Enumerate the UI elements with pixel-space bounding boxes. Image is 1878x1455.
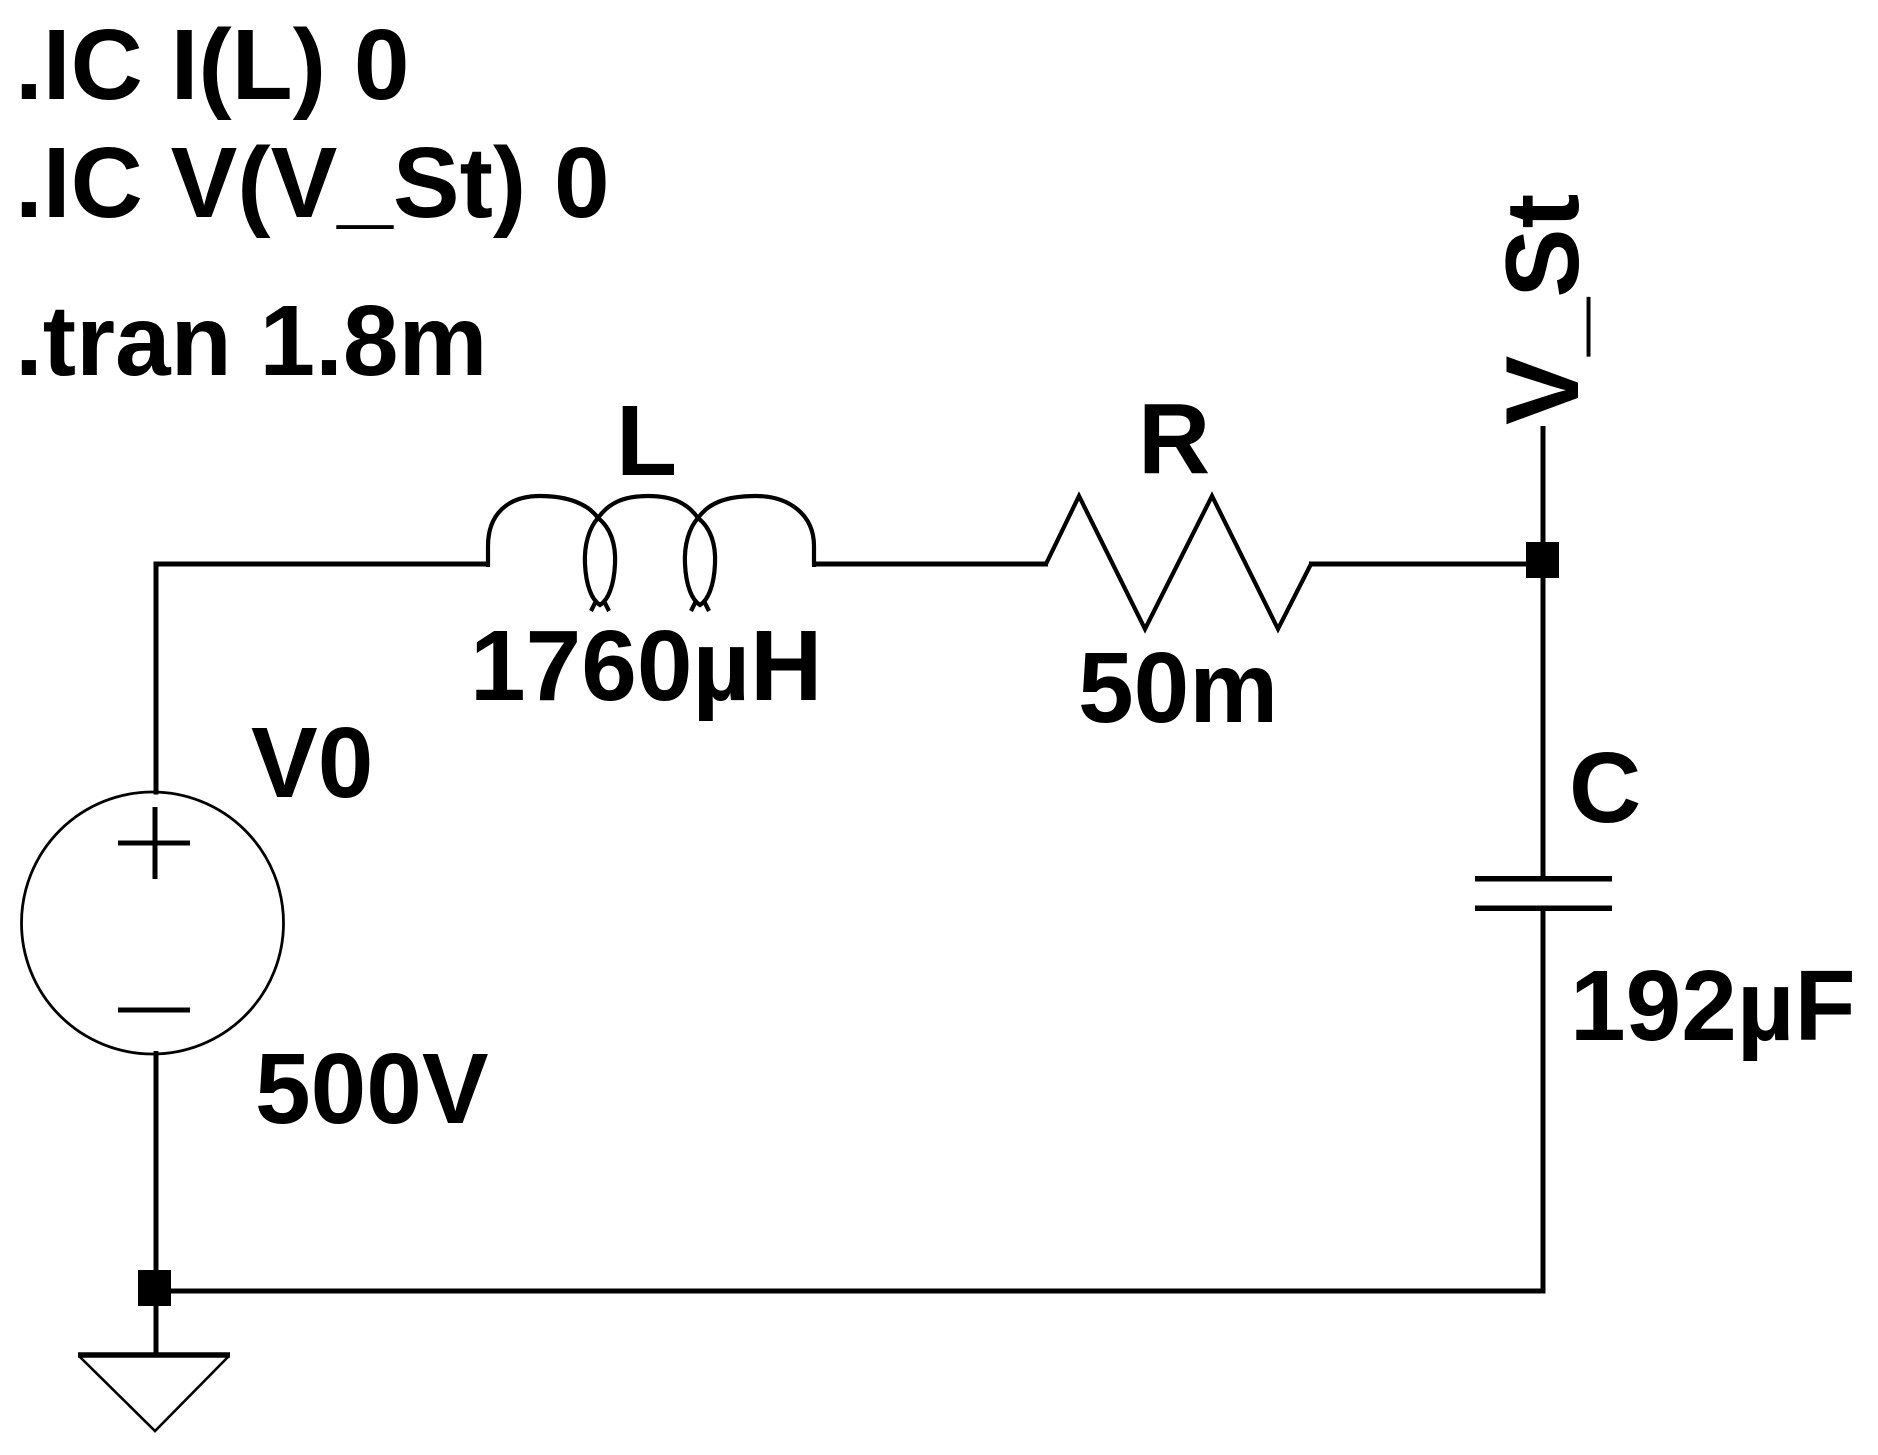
voltage source V0 plus sign <box>118 807 190 879</box>
node junction at V_St (top right) <box>1526 542 1559 578</box>
svg-text:V_St: V_St <box>1485 194 1601 425</box>
wire right vertical lower (capacitor bottom plate to bottom rail) <box>1541 908 1546 1293</box>
svg-text:R: R <box>1138 383 1210 495</box>
wire bottom horizontal (ground rail) <box>154 1289 1546 1294</box>
wire left vertical lower (V0 minus terminal to bottom corner) <box>154 1051 159 1293</box>
wire right vertical (node to capacitor top plate) <box>1541 561 1546 879</box>
svg-text:C: C <box>1569 732 1641 844</box>
svg-text:1760µH: 1760µH <box>470 610 822 722</box>
wire right vertical upper (net label V_St to node) <box>1541 426 1546 563</box>
svg-text:.tran 1.8m: .tran 1.8m <box>15 285 487 397</box>
ground symbol <box>78 1355 230 1431</box>
voltage source V0 minus sign <box>118 1008 190 1013</box>
voltage source V0 symbol: circle <box>22 792 284 1054</box>
svg-text:.IC V(V_St) 0: .IC V(V_St) 0 <box>15 127 610 239</box>
svg-text:500V: 500V <box>255 1033 489 1145</box>
capacitor C symbol: bottom plate <box>1475 906 1612 912</box>
capacitor C symbol: top plate <box>1475 876 1612 882</box>
svg-text:.IC I(L) 0: .IC I(L) 0 <box>15 9 409 121</box>
wire ground stub (junction to ground symbol) <box>154 1291 159 1357</box>
svg-text:L: L <box>616 385 677 497</box>
wire left vertical upper (top corner to V0 plus terminal) <box>154 562 159 795</box>
svg-text:50m: 50m <box>1078 632 1278 744</box>
wire top-middle horizontal (inductor to resistor) <box>812 562 1048 567</box>
wire top-left horizontal (source to inductor) <box>154 562 489 567</box>
node junction at ground rail (bottom left) <box>138 1270 171 1306</box>
resistor R symbol <box>1046 496 1311 629</box>
wire top-right horizontal (resistor to node V_St) <box>1309 562 1545 567</box>
svg-text:V0: V0 <box>251 707 373 819</box>
svg-text:192µF: 192µF <box>1570 950 1856 1062</box>
inductor L symbol <box>488 496 814 611</box>
